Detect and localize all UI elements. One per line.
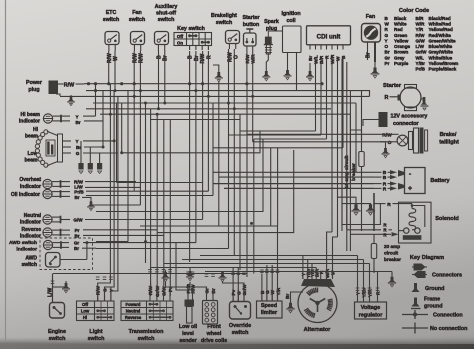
wire bus 5: [86, 108, 331, 110]
svg-text:indicator: indicator: [20, 184, 41, 190]
svg-text:Y: Y: [75, 139, 78, 144]
svg-text:O: O: [385, 44, 389, 49]
svg-text:Engine: Engine: [48, 329, 66, 335]
override switch: [229, 284, 251, 336]
svg-text:Neutral: Neutral: [126, 309, 140, 314]
svg-text:B: B: [188, 55, 194, 59]
voltage regulator riser wires: [356, 256, 380, 297]
svg-text:Oil indicator: Oil indicator: [11, 192, 40, 198]
svg-text:Hi: Hi: [83, 315, 87, 320]
starter button: [242, 15, 259, 64]
svg-text:Brakelight: Brakelight: [211, 13, 237, 19]
ground at fan: [371, 62, 380, 78]
svg-text:AWD switch: AWD switch: [9, 240, 37, 246]
brakelight switch: [211, 13, 240, 62]
battery: [374, 168, 451, 194]
svg-text:Blue/White: Blue/White: [429, 44, 453, 49]
svg-text:Y/Br: Y/Br: [416, 61, 426, 66]
svg-text:switch: switch: [103, 17, 119, 23]
Auxiliary shut-off switch: [155, 4, 178, 61]
svg-text:Hi: Hi: [33, 127, 39, 133]
svg-text:switch: switch: [216, 20, 232, 26]
svg-text:Overheat: Overheat: [19, 177, 41, 183]
svg-text:Purple/Black: Purple/Black: [429, 67, 457, 72]
svg-text:Connection: Connection: [433, 313, 463, 319]
wires to starter and 12V accessory: [350, 91, 379, 140]
svg-text:Br: Br: [385, 50, 390, 55]
svg-text:Front: Front: [207, 324, 221, 330]
ground near key switch: [213, 65, 219, 71]
svg-text:coil: coil: [286, 18, 296, 24]
transmission switch: [121, 285, 173, 342]
ground near voltage regulator: [391, 272, 393, 283]
svg-text:Connectors: Connectors: [432, 273, 462, 279]
junction dots mid: [85, 89, 253, 244]
spark plug: [264, 19, 279, 65]
svg-text:Key switch: Key switch: [177, 26, 205, 32]
svg-text:+: +: [408, 186, 412, 193]
svg-text:White/Blue: White/Blue: [429, 55, 453, 60]
svg-text:W: W: [336, 56, 342, 61]
drop wires from top switches to buses: [109, 49, 253, 109]
wires to brake/taillight: [247, 96, 394, 141]
svg-text:breaker: breaker: [384, 257, 401, 262]
svg-text:20 amp: 20 amp: [384, 244, 400, 249]
svg-text:Yellow/Brown: Yellow/Brown: [429, 61, 459, 66]
svg-text:W: W: [385, 22, 390, 27]
svg-text:B/R: B/R: [319, 55, 325, 64]
svg-text:Yellow/Red: Yellow/Red: [429, 27, 453, 32]
svg-text:Gr: Gr: [385, 55, 391, 60]
svg-text:R: R: [325, 55, 331, 59]
ground right below battery: [366, 204, 375, 215]
svg-text:R/W: R/W: [107, 53, 113, 63]
svg-text:O: O: [388, 140, 392, 146]
engine switch: [48, 274, 67, 343]
svg-text:Ground: Ground: [425, 286, 444, 292]
ground at power plug: [60, 94, 71, 96]
svg-text:Starter: Starter: [242, 15, 259, 21]
svg-text:Yellow: Yellow: [394, 38, 409, 43]
svg-text:R: R: [387, 202, 391, 208]
ground at alternator: [286, 303, 294, 313]
svg-text:AWD: AWD: [25, 256, 37, 262]
svg-text:R: R: [383, 186, 387, 192]
svg-text:Gr/W: Gr/W: [416, 50, 428, 55]
fan motor: [362, 14, 381, 62]
svg-text:Solenoid: Solenoid: [435, 216, 459, 222]
svg-text:Fan: Fan: [132, 10, 141, 16]
svg-text:switch: switch: [88, 336, 105, 342]
wire bus from power plug R/W: [84, 83, 322, 85]
ground left of low oil sender: [162, 270, 170, 282]
svg-text:B: B: [156, 55, 162, 59]
svg-text:Y: Y: [75, 114, 78, 119]
svg-text:Override: Override: [229, 323, 251, 329]
misc right-side verticals: [342, 103, 356, 230]
svg-text:level: level: [182, 331, 194, 337]
ground at brake/taillight: [382, 146, 390, 158]
ground at spark plug: [262, 65, 270, 81]
svg-text:Voltage: Voltage: [361, 305, 380, 311]
svg-text:connector: connector: [393, 121, 419, 127]
starter motor: [383, 83, 424, 111]
svg-text:Hi beam: Hi beam: [21, 112, 41, 118]
svg-text:W/R: W/R: [325, 268, 330, 278]
svg-text:Br: Br: [194, 55, 200, 61]
svg-text:Gr: Gr: [74, 240, 80, 245]
Fan switch: [129, 10, 145, 63]
svg-text:12V accessory: 12V accessory: [391, 114, 428, 120]
key switch: [174, 26, 212, 64]
svg-text:Speed: Speed: [261, 303, 277, 309]
svg-text:indicator: indicator: [20, 234, 41, 240]
brake/taillight: [380, 128, 459, 154]
svg-text:Pr: Pr: [75, 228, 80, 233]
svg-text:White/Red: White/Red: [429, 22, 452, 27]
right column vertical wires: [342, 59, 374, 273]
svg-text:R: R: [385, 95, 389, 101]
svg-text:Br: Br: [308, 56, 314, 61]
svg-text:Y: Y: [385, 38, 388, 43]
svg-text:Black: Black: [394, 16, 407, 21]
svg-text:Y/R: Y/R: [416, 27, 424, 32]
svg-text:Auxiliary: Auxiliary: [155, 4, 178, 10]
svg-text:Brake/: Brake/: [440, 132, 457, 138]
heavy wire battery to solenoid: [373, 193, 375, 231]
svg-text:Gray: Gray: [394, 55, 405, 60]
svg-text:W/L: W/L: [416, 55, 425, 60]
svg-text:R/W: R/W: [382, 133, 392, 139]
headlight hi/low beam: [24, 127, 117, 167]
svg-text:switch: switch: [129, 17, 145, 23]
svg-text:switch: switch: [21, 262, 37, 268]
ETC switch: [103, 10, 119, 63]
svg-text:Low oil: Low oil: [179, 324, 198, 330]
svg-text:drive coils: drive coils: [201, 338, 227, 344]
ground left below battery: [351, 204, 360, 215]
svg-text:button: button: [243, 22, 259, 28]
front wheel drive coils: [201, 288, 227, 344]
svg-text:B: B: [341, 55, 347, 59]
ground left of front wheel drive coils: [186, 268, 194, 281]
svg-text:Neutral: Neutral: [24, 213, 42, 219]
reverse indicator: [20, 227, 164, 240]
color code legend: [385, 8, 459, 72]
CDI unit: [307, 26, 351, 64]
neutral indicator: [20, 213, 150, 226]
svg-text:switch: switch: [232, 330, 249, 336]
CDI drop wires: [213, 59, 343, 274]
svg-text:Low: Low: [81, 309, 90, 314]
svg-text:regulator: regulator: [359, 313, 384, 319]
svg-text:Color Code: Color Code: [399, 8, 429, 14]
svg-text:Pr: Pr: [385, 61, 390, 66]
svg-text:Br: Br: [74, 246, 79, 251]
AWD switch indicator: [9, 240, 170, 253]
svg-text:W: W: [331, 270, 336, 275]
instrument console dashed box: [40, 238, 93, 270]
svg-text:L/W: L/W: [416, 44, 425, 49]
svg-text:limiter: limiter: [261, 310, 278, 316]
svg-text:circuit: circuit: [384, 251, 399, 256]
svg-text:On: On: [177, 40, 183, 45]
svg-text:Starter: Starter: [383, 83, 402, 89]
svg-text:Br: Br: [74, 195, 79, 200]
svg-text:ground: ground: [424, 304, 443, 310]
svg-text:Fan: Fan: [366, 14, 375, 20]
svg-text:Frame: Frame: [424, 297, 440, 303]
svg-text:Gr/W: Gr/W: [242, 284, 247, 296]
svg-text:Orange: Orange: [394, 44, 411, 49]
svg-text:W: W: [113, 56, 119, 61]
svg-text:indicator: indicator: [19, 119, 40, 125]
svg-text:R/W: R/W: [139, 53, 145, 63]
svg-text:R/W: R/W: [64, 82, 75, 88]
ground at ignition coil: [284, 64, 292, 80]
riser connector marks: [51, 270, 280, 284]
svg-text:G/W: G/W: [416, 38, 426, 43]
12V accessory connector: [379, 112, 428, 127]
svg-text:G/W: G/W: [73, 217, 83, 222]
ground at oil indicator: [87, 200, 95, 211]
10 amp circuit breaker: [344, 140, 364, 188]
svg-text:G: G: [385, 33, 389, 38]
oil indicator: [11, 189, 209, 200]
svg-text:L/W: L/W: [48, 288, 54, 297]
alternator: [285, 268, 337, 333]
svg-text:indicator: indicator: [20, 220, 41, 226]
svg-text:Red: Red: [394, 27, 403, 32]
wire pair with grounds below battery: [337, 197, 371, 210]
svg-text:beam: beam: [24, 158, 38, 164]
light switch: [77, 285, 115, 342]
svg-text:Power: Power: [26, 80, 42, 86]
svg-text:No connection: No connection: [430, 326, 467, 332]
svg-text:Key Diagram: Key Diagram: [410, 255, 444, 261]
svg-text:Light: Light: [89, 329, 102, 335]
svg-text:Br: Br: [366, 52, 372, 58]
ground above override switch: [219, 271, 227, 282]
svg-text:plug: plug: [28, 87, 39, 93]
low oil level sender: [179, 283, 198, 344]
overheat indicator: [19, 177, 140, 190]
svg-text:Off: Off: [82, 302, 89, 307]
svg-text:R/W: R/W: [200, 54, 206, 64]
wires to battery: [213, 172, 374, 188]
svg-text:White: White: [394, 22, 407, 27]
svg-text:W/L: W/L: [314, 55, 320, 64]
svg-text:B: B: [383, 175, 387, 181]
svg-text:R: R: [206, 55, 212, 59]
svg-text:CDI unit: CDI unit: [317, 34, 341, 41]
svg-text:W/R: W/R: [330, 54, 336, 64]
AWD switch: [21, 243, 86, 268]
ignition coil: [268, 11, 301, 91]
junction dots on buses: [94, 89, 254, 116]
svg-text:Battery: Battery: [430, 178, 450, 184]
svg-text:Alternator: Alternator: [304, 327, 332, 333]
key diagram legend: [402, 255, 467, 334]
svg-text:Black/Red: Black/Red: [429, 16, 451, 21]
svg-text:R/W: R/W: [416, 33, 426, 38]
svg-text:taillight: taillight: [439, 140, 459, 146]
svg-text:Gray/White: Gray/White: [429, 50, 454, 55]
svg-text:indicator: indicator: [16, 247, 37, 253]
wire bus 3: [60, 95, 370, 97]
long vertical wires center-left: [98, 83, 301, 85]
svg-text:Purple: Purple: [394, 61, 409, 66]
speed limiter: [257, 287, 283, 318]
junction dots on R/W bus: [87, 82, 324, 85]
svg-text:Pr/B: Pr/B: [416, 67, 426, 72]
svg-text:Ignition: Ignition: [281, 11, 300, 17]
svg-text:shut-off: shut-off: [156, 11, 176, 17]
svg-text:Red/White: Red/White: [429, 33, 452, 38]
svg-text:switch: switch: [49, 336, 66, 342]
headlight connector stubs: [0, 0, 1, 1]
wire from bus to starter R: [370, 90, 390, 97]
voltage regulator: [355, 288, 387, 319]
ground at engine switch: [65, 285, 67, 287]
wire bus 4: [93, 102, 356, 104]
ground at starter: [421, 97, 429, 110]
wire bus 2: [86, 90, 370, 92]
svg-text:beam: beam: [25, 134, 39, 140]
bottom riser bends: [81, 141, 278, 302]
svg-text:switch: switch: [158, 17, 175, 23]
power plug: [26, 80, 84, 96]
wires to solenoid: [342, 202, 412, 238]
wire bus 6: [100, 113, 350, 115]
svg-text:R/W: R/W: [132, 53, 138, 63]
svg-text:W/R: W/R: [416, 22, 426, 27]
mid horizontal wires: [53, 120, 294, 274]
svg-text:switch: switch: [138, 336, 155, 342]
svg-text:Reverse: Reverse: [125, 315, 142, 320]
svg-text:Y/R: Y/R: [276, 287, 281, 295]
svg-text:Reverse: Reverse: [22, 227, 42, 233]
solenoid: [399, 202, 460, 243]
svg-text:sender: sender: [179, 338, 196, 344]
svg-text:B/R: B/R: [416, 16, 425, 21]
svg-text:Foward: Foward: [126, 302, 141, 307]
ground at CDI Br pin: [309, 63, 311, 66]
svg-text:ETC: ETC: [106, 10, 117, 16]
svg-text:Off: Off: [177, 34, 184, 39]
svg-text:Brown: Brown: [394, 50, 408, 55]
svg-text:Br: Br: [285, 294, 291, 299]
20 amp circuit breaker: [371, 234, 401, 271]
svg-text:Br: Br: [163, 55, 169, 61]
svg-text:Green: Green: [394, 33, 407, 38]
svg-text:wheel: wheel: [206, 331, 222, 337]
svg-text:Br: Br: [75, 120, 80, 125]
hi beam indicator: [19, 112, 103, 125]
svg-text:Green/White: Green/White: [429, 38, 457, 43]
alternator riser wires and stair bus: [150, 232, 392, 279]
svg-text:Spark: Spark: [264, 19, 279, 25]
svg-text:G: G: [76, 151, 80, 156]
svg-text:Transmission: Transmission: [129, 329, 164, 335]
